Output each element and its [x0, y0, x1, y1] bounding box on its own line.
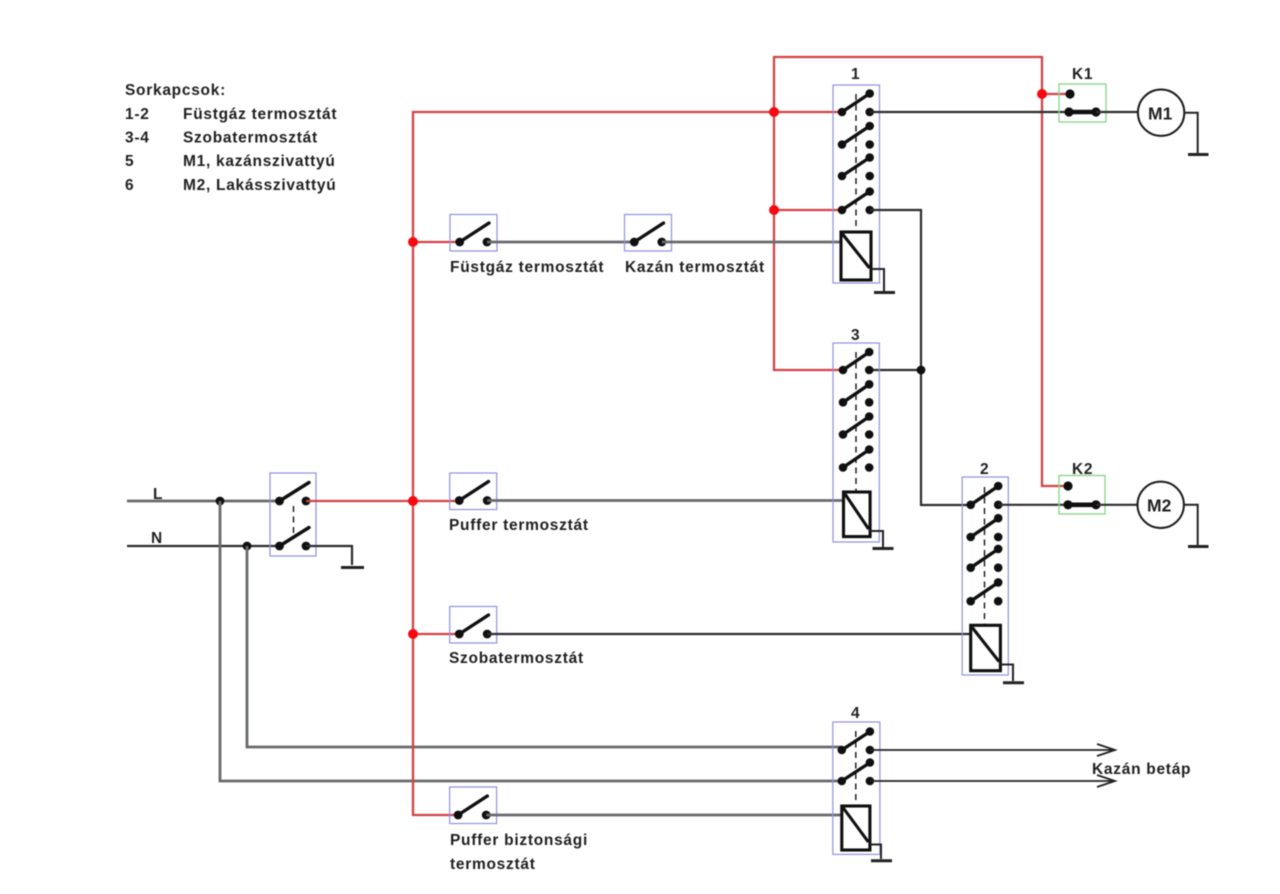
relay 1 coil	[841, 232, 871, 280]
wire Kazan switch to relay 1 coil	[662, 241, 842, 244]
switch: Szobatermosztat	[450, 607, 497, 644]
wire red trunk A to Fustgaz switch	[413, 241, 460, 243]
ground (M1)	[1188, 153, 1209, 156]
switch: Kazan termosztat	[625, 215, 672, 252]
wire K1 to M1	[1096, 111, 1138, 113]
junction red Szoba branch	[408, 629, 418, 639]
wire relay2 contact1 to K2	[998, 504, 1068, 506]
ground (M2)	[1188, 545, 1209, 548]
svg-text:M2, Lakásszivattyú: M2, Lakásszivattyú	[183, 177, 336, 194]
motor M1	[1138, 90, 1184, 136]
relay 3 coil	[844, 492, 871, 537]
junction red trunk A / L branch	[408, 496, 418, 506]
contactor K1	[1059, 84, 1106, 122]
label Puffer biztonsagi termosztat	[450, 832, 588, 873]
junction red Fustgaz branch	[408, 237, 418, 247]
svg-text:3: 3	[851, 327, 860, 344]
wire N pole to ground	[306, 546, 352, 565]
junction red trunk B contact4 branch	[769, 205, 779, 215]
wire K2 to M2	[1096, 504, 1138, 506]
svg-text:4: 4	[851, 705, 860, 722]
wire relay3 contact1 to vertical junction	[869, 369, 921, 371]
svg-text:termosztát: termosztát	[450, 856, 536, 873]
relay 4	[833, 722, 880, 854]
legend: Sorkapcsok terminal list	[125, 82, 337, 194]
svg-text:6: 6	[125, 177, 134, 194]
wire relay4 contact2 to Kazan betap arrow 2	[870, 780, 1113, 782]
wire Puffer biztonsagi switch to relay 4 coil	[486, 814, 842, 817]
svg-text:Szobatermosztát: Szobatermosztát	[449, 650, 584, 667]
junction red trunk C at K1	[1037, 89, 1047, 99]
relay 4 coil	[842, 806, 870, 850]
svg-text:Sorkapcsok:: Sorkapcsok:	[125, 82, 226, 99]
switch: Fustgaz termosztat	[450, 215, 497, 252]
wire from L junction down to relay 4 contact 2	[220, 501, 842, 781]
svg-text:K1: K1	[1072, 66, 1093, 83]
wire relay1 contact4 down to relay2 contact1	[870, 210, 971, 505]
wire red trunk C to K1 coil dot	[1042, 93, 1070, 95]
junction on L line	[216, 497, 225, 506]
wire M2 to ground	[1184, 505, 1198, 545]
motor M2	[1138, 482, 1184, 528]
svg-text:M1, kazánszivattyú: M1, kazánszivattyú	[183, 153, 336, 170]
relay 3 coil ground	[870, 531, 894, 549]
svg-text:Kazán termosztát: Kazán termosztát	[625, 259, 765, 276]
junction relay3 output	[917, 366, 926, 375]
svg-text:1-2: 1-2	[125, 106, 150, 123]
arrowhead 2	[1097, 775, 1115, 787]
contactor K2	[1059, 476, 1105, 515]
wire L input	[127, 500, 279, 503]
svg-text:1: 1	[851, 66, 860, 83]
relay 2	[962, 477, 1008, 675]
wire red trunk A with top branch to relay 1 contact 1	[413, 112, 842, 815]
wire relay4 contact1 to Kazan betap arrow 1	[870, 749, 1113, 751]
junction on N line	[243, 542, 252, 551]
svg-text:Puffer termosztát: Puffer termosztát	[449, 517, 589, 534]
relay 3	[833, 343, 879, 542]
wire Szoba switch to relay 2 coil	[487, 633, 971, 635]
wire Fustgaz to Kazan switch	[487, 241, 634, 244]
svg-text:5: 5	[125, 153, 134, 170]
wire red trunk B to relay 1 contact 4	[774, 209, 842, 211]
wire relay1 contact1 to K1	[870, 111, 1069, 113]
relay 2 coil	[971, 625, 1001, 670]
relay 4 coil ground	[870, 845, 892, 861]
svg-text:M2: M2	[1147, 496, 1172, 516]
svg-text:N: N	[151, 530, 163, 547]
svg-text:Kazán betáp: Kazán betáp	[1092, 761, 1191, 778]
wire N input	[127, 545, 279, 547]
relay 2 coil ground	[1000, 665, 1024, 683]
wire M1 to ground	[1184, 113, 1197, 153]
relay 1 coil ground	[871, 269, 895, 293]
arrowhead 1	[1097, 744, 1115, 756]
switch: Puffer termosztat	[450, 473, 497, 510]
main double-pole switch S1	[270, 473, 316, 556]
svg-text:M1: M1	[1148, 104, 1173, 124]
wire Puffer switch to relay 3 coil	[487, 499, 843, 502]
svg-text:Puffer biztonsági: Puffer biztonsági	[450, 832, 588, 849]
switch: Puffer biztonsagi termosztat	[450, 787, 497, 824]
ground (main switch)	[341, 566, 364, 569]
wire from N junction down to relay 4 contact 1	[247, 546, 842, 747]
svg-text:Füstgáz termosztát: Füstgáz termosztát	[183, 106, 337, 123]
wire red trunk B and top run to trunk C down to K2	[774, 57, 1069, 486]
svg-text:Szobatermosztát: Szobatermosztát	[183, 130, 318, 147]
svg-text:2: 2	[980, 461, 989, 478]
wire red trunk A to Szoba switch	[413, 633, 460, 635]
svg-text:Füstgáz termosztát: Füstgáz termosztát	[450, 259, 604, 276]
junction red trunk B at relay1 feed	[769, 107, 779, 117]
wire red: switch to trunk A	[306, 500, 460, 502]
svg-text:3-4: 3-4	[125, 130, 150, 147]
relay 1	[833, 85, 880, 283]
